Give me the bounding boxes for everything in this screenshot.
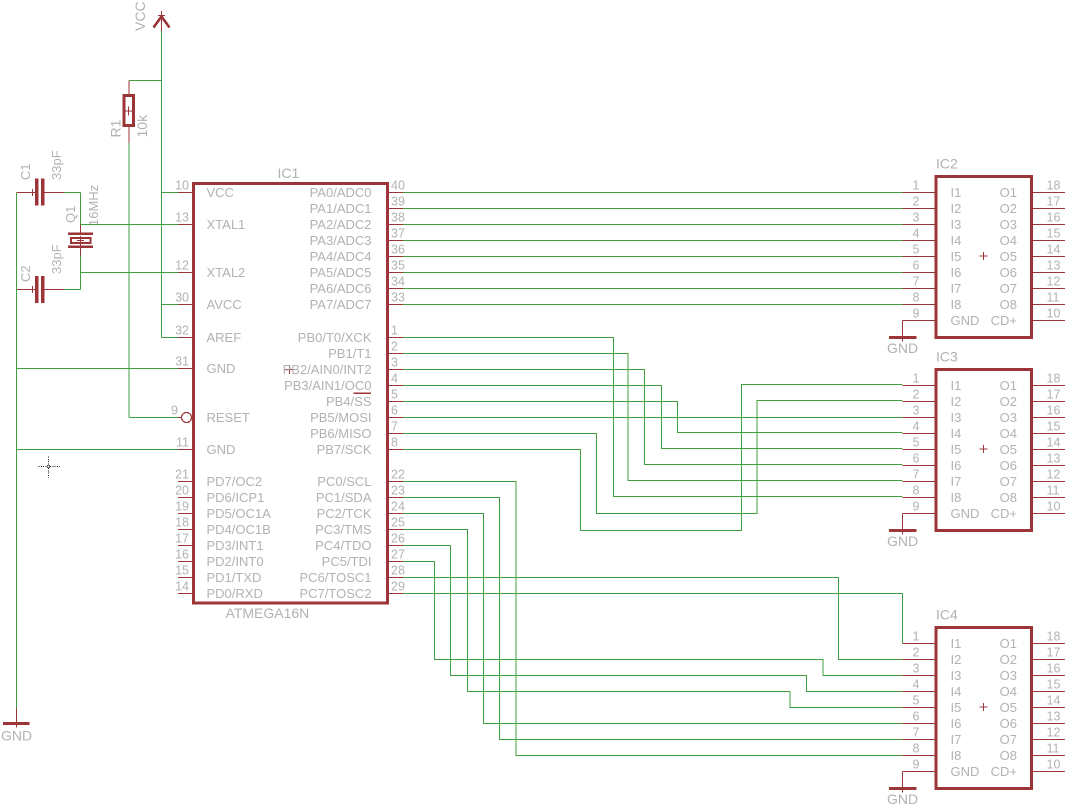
IC3 pin 9 GND: [903, 500, 980, 521]
wire PA2 to IC2 I3: [403, 224, 903, 226]
svg-text:13: 13: [175, 211, 189, 225]
crystal Q1: [68, 225, 93, 256]
svg-text:16MHz: 16MHz: [86, 185, 101, 226]
IC3 origin cross: [980, 448, 988, 450]
IC1 pin 2 PB1/T1: [328, 340, 403, 361]
svg-text:5: 5: [913, 694, 920, 708]
svg-text:6: 6: [913, 452, 920, 466]
IC2 pin 17 O2: [1000, 195, 1065, 216]
svg-text:R1: R1: [107, 119, 123, 137]
svg-text:I5: I5: [951, 249, 962, 264]
svg-text:16: 16: [1047, 211, 1061, 225]
IC1 pin 15 PD1/TXD: [175, 564, 261, 585]
wire PA3 to IC2 I4: [403, 240, 903, 242]
svg-text:I2: I2: [951, 201, 962, 216]
svg-text:3: 3: [913, 211, 920, 225]
svg-text:IC3: IC3: [936, 349, 958, 365]
IC3 pin 14 O5: [1000, 436, 1065, 457]
svg-text:17: 17: [1047, 195, 1061, 209]
IC3 pin 16 O3: [1000, 404, 1065, 425]
svg-text:4: 4: [913, 678, 920, 692]
svg-text:I6: I6: [951, 458, 962, 473]
svg-text:PA0/ADC0: PA0/ADC0: [310, 185, 372, 200]
svg-text:XTAL2: XTAL2: [207, 265, 246, 280]
IC1 pin 39 PA1/ADC1: [310, 195, 405, 216]
svg-text:I4: I4: [951, 684, 962, 699]
svg-text:15: 15: [1047, 420, 1061, 434]
IC1 pin 21 PD7/OC2: [175, 468, 262, 489]
wire GND rail to pin31: [17, 368, 179, 370]
svg-text:20: 20: [175, 484, 189, 498]
svg-text:GND: GND: [951, 313, 980, 328]
IC3 pin 2 I2: [903, 388, 962, 409]
wire PB6 to IC3 I2: [403, 401, 903, 514]
svg-text:C1: C1: [18, 163, 33, 180]
IC1 pin 37 PA3/ADC3: [310, 227, 405, 248]
IC2 pin 16 O3: [1000, 211, 1065, 232]
svg-text:GND: GND: [1, 728, 32, 744]
svg-text:PA2/ADC2: PA2/ADC2: [310, 217, 372, 232]
svg-text:3: 3: [391, 356, 398, 370]
svg-text:O1: O1: [1000, 636, 1017, 651]
svg-text:I5: I5: [951, 700, 962, 715]
svg-text:I3: I3: [951, 410, 962, 425]
IC1 pin 31 GND: [175, 355, 235, 376]
svg-text:11: 11: [1047, 291, 1060, 305]
IC1 pin 25 PC3/TMS: [315, 516, 405, 537]
svg-text:O6: O6: [1000, 265, 1017, 280]
svg-text:1: 1: [913, 179, 920, 193]
svg-text:6: 6: [913, 710, 920, 724]
svg-text:I2: I2: [951, 652, 962, 667]
svg-text:O3: O3: [1000, 410, 1017, 425]
IC2 pin 8 I8: [903, 291, 962, 312]
svg-text:IC1: IC1: [278, 165, 300, 181]
IC3 pin 8 I8: [903, 484, 962, 505]
IC1 pin 16 PD2/INT0: [175, 548, 263, 569]
svg-text:O5: O5: [1000, 700, 1017, 715]
svg-text:4: 4: [391, 372, 398, 386]
wire XTAL1: [81, 224, 179, 226]
svg-text:10: 10: [1047, 500, 1061, 514]
wire VCC vertical net: [161, 31, 163, 338]
IC4 pin 12 O7: [1000, 726, 1065, 747]
svg-text:I8: I8: [951, 297, 962, 312]
svg-text:8: 8: [913, 291, 920, 305]
svg-text:1: 1: [913, 372, 920, 386]
svg-text:1: 1: [913, 630, 920, 644]
IC2 pin 15 O4: [1000, 227, 1065, 248]
svg-text:12: 12: [1047, 726, 1061, 740]
svg-text:O1: O1: [1000, 185, 1017, 200]
svg-text:17: 17: [1047, 646, 1061, 660]
wire VCC to AVCC pin30: [162, 304, 179, 306]
svg-text:7: 7: [913, 468, 920, 482]
wire C1 to XTAL1 node: [64, 192, 81, 194]
IC1 pin 17 PD3/INT1: [175, 532, 263, 553]
wire PA0 to IC2 I1: [403, 192, 903, 194]
IC4 pin 17 O2: [1000, 646, 1065, 667]
IC1 pin 23 PC1/SDA: [316, 484, 405, 505]
svg-text:PD4/OC1B: PD4/OC1B: [207, 522, 271, 537]
IC1 pin 4 PB3/AIN1/OC0: [284, 372, 403, 393]
svg-text:O6: O6: [1000, 458, 1017, 473]
IC3 pin 5 I5: [903, 436, 962, 457]
IC3 box: [936, 370, 1032, 531]
svg-text:I7: I7: [951, 474, 962, 489]
wire PC6 to IC4 I2: [403, 578, 903, 660]
IC1 pin 24 PC2/TCK: [317, 500, 405, 521]
wire PB3 to IC3 I5: [403, 386, 903, 449]
IC1 pin 30 AVCC: [175, 291, 242, 312]
IC1 pin 13 XTAL1: [175, 211, 245, 232]
IC3 pin 4 I4: [903, 420, 962, 441]
IC1 pin 35 PA5/ADC5: [310, 259, 405, 280]
IC3 pin 6 I6: [903, 452, 962, 473]
svg-text:15: 15: [1047, 227, 1061, 241]
IC1 pin 26 PC4/TDO: [315, 532, 405, 553]
svg-text:GND: GND: [887, 340, 918, 356]
IC4 pin 14 O5: [1000, 694, 1065, 715]
svg-text:32: 32: [175, 324, 189, 338]
svg-text:RESET: RESET: [207, 410, 250, 425]
svg-text:ATMEGA16N: ATMEGA16N: [226, 605, 310, 621]
IC2 pin 10 CD+: [991, 307, 1065, 328]
IC4 pin 5 I5: [903, 694, 962, 715]
svg-text:27: 27: [391, 548, 405, 562]
IC2 origin cross: [980, 255, 988, 257]
IC2 pin 14 O5: [1000, 243, 1065, 264]
wire GND rail to pin11: [17, 449, 179, 451]
svg-text:35: 35: [391, 259, 405, 273]
svg-text:PD3/INT1: PD3/INT1: [207, 538, 264, 553]
IC2 pin 18 O1: [1000, 179, 1065, 200]
svg-text:O8: O8: [1000, 490, 1017, 505]
wire PA1 to IC2 I2: [403, 208, 903, 210]
svg-text:14: 14: [1047, 694, 1061, 708]
IC4 pin 1 I1: [903, 630, 962, 651]
svg-text:14: 14: [1047, 243, 1061, 257]
svg-text:O4: O4: [1000, 233, 1017, 248]
svg-text:34: 34: [391, 275, 405, 289]
svg-text:I7: I7: [951, 732, 962, 747]
svg-text:15: 15: [1047, 678, 1061, 692]
svg-text:GND: GND: [951, 764, 980, 779]
svg-text:GND: GND: [887, 533, 918, 549]
IC3 pin 18 O1: [1000, 372, 1065, 393]
wire PB5 to IC3 I3: [403, 417, 903, 419]
IC1 pin 14 PD0/RXD: [175, 580, 263, 601]
IC2 pin 13 O6: [1000, 259, 1065, 280]
wire PA4 to IC2 I5: [403, 256, 903, 258]
svg-text:PB7/SCK: PB7/SCK: [317, 442, 372, 457]
wire PC4 to IC4 I4: [403, 546, 903, 692]
svg-text:PA7/ADC7: PA7/ADC7: [310, 297, 372, 312]
svg-text:PB2/AIN0/INT2: PB2/AIN0/INT2: [283, 362, 372, 377]
overline on SS of PB4/SS: [354, 392, 372, 394]
IC4 pin 18 O1: [1000, 630, 1065, 651]
svg-text:6: 6: [391, 404, 398, 418]
svg-text:23: 23: [391, 484, 405, 498]
svg-text:11: 11: [176, 436, 189, 450]
svg-text:I6: I6: [951, 716, 962, 731]
svg-text:9: 9: [913, 758, 920, 772]
ground symbol GND (IC2 pin 9): [889, 321, 917, 342]
IC2 pin 11 O8: [1000, 291, 1065, 312]
svg-text:29: 29: [391, 580, 405, 594]
svg-text:I4: I4: [951, 426, 962, 441]
svg-text:O8: O8: [1000, 297, 1017, 312]
svg-text:PD2/INT0: PD2/INT0: [207, 554, 264, 569]
svg-text:XTAL1: XTAL1: [207, 217, 246, 232]
svg-text:PB4/SS: PB4/SS: [326, 394, 372, 409]
IC3 pin 7 I7: [903, 468, 962, 489]
svg-text:O6: O6: [1000, 716, 1017, 731]
svg-text:IC4: IC4: [936, 607, 958, 623]
IC2 pin 4 I4: [903, 227, 962, 248]
IC3 pin 13 O6: [1000, 452, 1065, 473]
wire PA5 to IC2 I6: [403, 272, 903, 274]
svg-text:9: 9: [913, 307, 920, 321]
wire PC1 to IC4 I7: [403, 498, 903, 740]
svg-text:4: 4: [913, 420, 920, 434]
wire C2 to XTAL2 node: [64, 289, 81, 291]
svg-text:17: 17: [1047, 388, 1061, 402]
svg-text:I4: I4: [951, 233, 962, 248]
svg-text:16: 16: [1047, 404, 1061, 418]
svg-text:40: 40: [391, 179, 405, 193]
wire R1 to RESET: [128, 143, 130, 418]
svg-text:O2: O2: [1000, 201, 1017, 216]
svg-text:3: 3: [913, 404, 920, 418]
IC3 pin 1 I1: [903, 372, 962, 393]
IC1 pin 10 VCC: [175, 179, 234, 200]
svg-text:I8: I8: [951, 490, 962, 505]
IC2 pin 9 GND: [903, 307, 980, 328]
svg-text:O3: O3: [1000, 217, 1017, 232]
wire PC3 to IC4 I5: [403, 530, 903, 708]
wire GND left rail: [16, 193, 18, 709]
wire VCC to R1 top: [129, 80, 162, 82]
svg-text:13: 13: [1047, 259, 1061, 273]
svg-text:PD7/OC2: PD7/OC2: [207, 474, 263, 489]
svg-text:PB5/MOSI: PB5/MOSI: [310, 410, 371, 425]
svg-text:8: 8: [913, 484, 920, 498]
wire PC7 to IC4 I1: [403, 594, 903, 644]
IC4 pin 4 I4: [903, 678, 962, 699]
wire Q1 bottom to C2: [80, 256, 82, 290]
svg-text:26: 26: [391, 532, 405, 546]
svg-text:O7: O7: [1000, 732, 1017, 747]
IC4 pin 13 O6: [1000, 710, 1065, 731]
IC1 pin 36 PA4/ADC4: [310, 243, 405, 264]
svg-text:PC5/TDI: PC5/TDI: [322, 554, 372, 569]
svg-text:PC4/TDO: PC4/TDO: [315, 538, 371, 553]
svg-text:16: 16: [1047, 662, 1061, 676]
IC4 pin 8 I8: [903, 742, 962, 763]
svg-text:O8: O8: [1000, 748, 1017, 763]
ground symbol GND (IC3 pin 9): [889, 514, 917, 535]
svg-text:PD5/OC1A: PD5/OC1A: [207, 506, 272, 521]
svg-text:2: 2: [913, 195, 920, 209]
svg-text:PD1/TXD: PD1/TXD: [207, 570, 262, 585]
capacitor C2: [17, 276, 65, 303]
svg-text:28: 28: [391, 564, 405, 578]
IC1 pin 11 GND: [176, 436, 235, 457]
svg-text:7: 7: [391, 420, 398, 434]
svg-text:12: 12: [1047, 468, 1061, 482]
svg-text:2: 2: [913, 646, 920, 660]
IC1 pin 3 PB2/AIN0/INT2: [283, 356, 403, 377]
svg-text:11: 11: [1047, 742, 1060, 756]
svg-text:9: 9: [171, 404, 178, 418]
IC4 pin 3 I3: [903, 662, 962, 683]
ground symbol GND (left): [3, 708, 30, 728]
sheet origin marker (dotted cross): [39, 457, 60, 478]
IC1 ATMEGA16N box: [194, 184, 388, 604]
ground symbol GND (IC4 pin 9): [889, 772, 917, 793]
svg-text:2: 2: [913, 388, 920, 402]
IC2 pin 6 I6: [903, 259, 962, 280]
wire VCC to AREF pin32: [162, 337, 179, 339]
wire PB0 to IC3 I8: [403, 338, 903, 497]
IC4 pin 10 CD+: [991, 758, 1065, 779]
svg-text:O3: O3: [1000, 668, 1017, 683]
IC1 pin 1 PB0/T0/XCK: [298, 324, 403, 345]
IC2 pin 3 I3: [903, 211, 962, 232]
IC1 pin 9 RESET: [171, 404, 250, 425]
svg-text:PC0/SCL: PC0/SCL: [317, 474, 371, 489]
IC2 pin 7 I7: [903, 275, 962, 296]
svg-text:I2: I2: [951, 394, 962, 409]
svg-text:O7: O7: [1000, 474, 1017, 489]
svg-text:I3: I3: [951, 217, 962, 232]
svg-text:CD+: CD+: [991, 313, 1017, 328]
svg-text:C2: C2: [18, 265, 33, 282]
IC4 box: [936, 628, 1032, 789]
svg-text:12: 12: [1047, 275, 1061, 289]
svg-text:I1: I1: [951, 378, 962, 393]
IC3 pin 12 O7: [1000, 468, 1065, 489]
svg-text:30: 30: [175, 291, 189, 305]
svg-text:PA3/ADC3: PA3/ADC3: [310, 233, 372, 248]
svg-text:21: 21: [175, 468, 189, 482]
IC1 pin 7 PB6/MISO: [310, 420, 403, 441]
svg-text:I5: I5: [951, 442, 962, 457]
svg-text:6: 6: [913, 259, 920, 273]
IC3 pin 10 CD+: [991, 500, 1065, 521]
svg-text:CD+: CD+: [991, 506, 1017, 521]
svg-text:37: 37: [391, 227, 405, 241]
svg-text:PA5/ADC5: PA5/ADC5: [310, 265, 372, 280]
svg-text:PB1/T1: PB1/T1: [328, 346, 371, 361]
svg-text:13: 13: [1047, 710, 1061, 724]
svg-text:31: 31: [175, 355, 189, 369]
svg-text:5: 5: [391, 388, 398, 402]
svg-text:PB6/MISO: PB6/MISO: [310, 426, 371, 441]
IC1 pin 19 PD5/OC1A: [175, 500, 271, 521]
IC1 pin 8 PB7/SCK: [317, 436, 403, 457]
IC3 pin 15 O4: [1000, 420, 1065, 441]
svg-text:I8: I8: [951, 748, 962, 763]
svg-text:7: 7: [913, 275, 920, 289]
IC1 pin 22 PC0/SCL: [317, 468, 405, 489]
capacitor C1: [17, 179, 65, 206]
svg-text:18: 18: [1047, 630, 1061, 644]
wire PB4 to IC3 I4: [403, 402, 903, 433]
svg-text:CD+: CD+: [991, 764, 1017, 779]
svg-text:10: 10: [175, 179, 189, 193]
IC4 pin 15 O4: [1000, 678, 1065, 699]
svg-text:24: 24: [391, 500, 405, 514]
svg-text:3: 3: [913, 662, 920, 676]
svg-text:10k: 10k: [134, 114, 150, 138]
svg-text:19: 19: [175, 500, 189, 514]
IC1 origin cross: [285, 369, 294, 371]
IC1 pin 32 AREF: [175, 324, 241, 345]
IC3 pin 11 O8: [1000, 484, 1065, 505]
IC4 pin 9 GND: [903, 758, 980, 779]
svg-text:I1: I1: [951, 185, 962, 200]
svg-text:GND: GND: [951, 506, 980, 521]
svg-text:9: 9: [913, 500, 920, 514]
wire PB2 to IC3 I6: [403, 370, 903, 465]
svg-text:18: 18: [175, 516, 189, 530]
svg-text:10: 10: [1047, 307, 1061, 321]
IC1 pin 38 PA2/ADC2: [310, 211, 405, 232]
svg-text:33pF: 33pF: [49, 244, 64, 274]
svg-text:PD6/ICP1: PD6/ICP1: [207, 490, 265, 505]
IC1 pin 28 PC6/TOSC1: [299, 564, 404, 585]
svg-text:18: 18: [1047, 179, 1061, 193]
svg-text:VCC: VCC: [207, 185, 234, 200]
IC4 pin 2 I2: [903, 646, 962, 667]
svg-text:PD0/RXD: PD0/RXD: [207, 586, 263, 601]
svg-text:O7: O7: [1000, 281, 1017, 296]
wire PB7 to IC3 I1: [403, 385, 903, 531]
IC1 pin 12 XTAL2: [175, 259, 245, 280]
svg-text:33pF: 33pF: [49, 150, 64, 180]
wire PC0 to IC4 I8: [403, 482, 903, 756]
IC2 pin 12 O7: [1000, 275, 1065, 296]
wire VCC to pin10: [162, 192, 179, 194]
svg-text:Q1: Q1: [63, 206, 78, 223]
IC2 pin 5 I5: [903, 243, 962, 264]
svg-text:O2: O2: [1000, 652, 1017, 667]
svg-text:O2: O2: [1000, 394, 1017, 409]
svg-text:5: 5: [913, 243, 920, 257]
svg-text:18: 18: [1047, 372, 1061, 386]
IC1 pin 5 PB4/SS: [326, 388, 403, 409]
svg-text:GND: GND: [887, 791, 918, 806]
svg-text:1: 1: [391, 324, 398, 338]
svg-text:8: 8: [391, 436, 398, 450]
svg-text:O5: O5: [1000, 442, 1017, 457]
IC1 pin 34 PA6/ADC6: [310, 275, 405, 296]
wire PB1 to IC3 I7: [403, 354, 903, 481]
svg-text:PB0/T0/XCK: PB0/T0/XCK: [298, 330, 372, 345]
wire XTAL2: [81, 272, 179, 274]
svg-text:I6: I6: [951, 265, 962, 280]
IC1 pin 40 PA0/ADC0: [310, 179, 405, 200]
IC3 pin 17 O2: [1000, 388, 1065, 409]
svg-text:8: 8: [913, 742, 920, 756]
VCC supply symbol: [154, 11, 170, 31]
IC4 origin cross: [980, 706, 988, 708]
svg-text:5: 5: [913, 436, 920, 450]
IC1 pin 20 PD6/ICP1: [175, 484, 264, 505]
svg-text:7: 7: [913, 726, 920, 740]
